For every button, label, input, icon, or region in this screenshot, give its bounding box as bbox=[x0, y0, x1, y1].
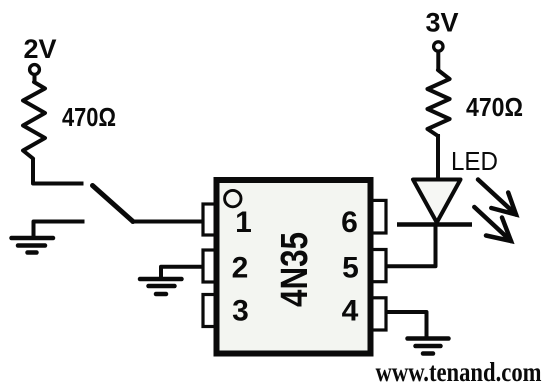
wire pin 4 to ground bbox=[387, 312, 427, 338]
wire bbox=[436, 134, 440, 180]
ground pin 4 bbox=[408, 339, 449, 354]
svg-text:2V: 2V bbox=[23, 34, 56, 64]
op-to-coupler U1 4N35 body bbox=[217, 180, 371, 354]
svg-text:3V: 3V bbox=[425, 8, 458, 38]
svg-text:4N35: 4N35 bbox=[274, 232, 316, 307]
terminal 2V bbox=[30, 65, 40, 75]
svg-text:www.tenand.com: www.tenand.com bbox=[376, 357, 542, 384]
svg-text:1: 1 bbox=[235, 206, 252, 239]
wire to pin 1 bbox=[131, 220, 202, 224]
switch SW1 arm bbox=[93, 186, 134, 222]
pin 6 tab bbox=[371, 200, 386, 233]
wire LED to pin 5 bbox=[387, 224, 436, 266]
svg-text:4: 4 bbox=[342, 295, 359, 328]
pin 2 tab bbox=[203, 250, 216, 282]
svg-text:2: 2 bbox=[232, 251, 249, 284]
pin 3 tab bbox=[203, 295, 216, 327]
wire bbox=[33, 75, 37, 83]
svg-text:470Ω: 470Ω bbox=[466, 94, 523, 122]
pin 4 tab bbox=[371, 298, 386, 330]
pin 1 tab bbox=[203, 204, 216, 235]
LED light arrow 1 bbox=[478, 180, 516, 215]
svg-text:6: 6 bbox=[341, 206, 358, 239]
svg-text:470Ω: 470Ω bbox=[62, 104, 116, 132]
wire bbox=[436, 51, 440, 70]
ground pin 2 bbox=[140, 279, 182, 294]
LED light arrow 2 bbox=[474, 207, 511, 241]
pin 1 index dot bbox=[225, 190, 241, 206]
pin 5 tab bbox=[371, 250, 386, 282]
LED cathode bar bbox=[397, 222, 472, 227]
wire bbox=[33, 158, 84, 184]
svg-text:LED: LED bbox=[451, 146, 498, 176]
wire pin 2 to ground bbox=[161, 267, 203, 279]
svg-text:3: 3 bbox=[232, 295, 249, 328]
svg-text:5: 5 bbox=[342, 251, 359, 284]
ground left bbox=[12, 222, 85, 253]
resistor R1 bbox=[23, 82, 45, 159]
LED D1 triangle bbox=[413, 180, 461, 223]
resistor R2 bbox=[428, 70, 450, 136]
terminal 3V bbox=[434, 42, 443, 51]
